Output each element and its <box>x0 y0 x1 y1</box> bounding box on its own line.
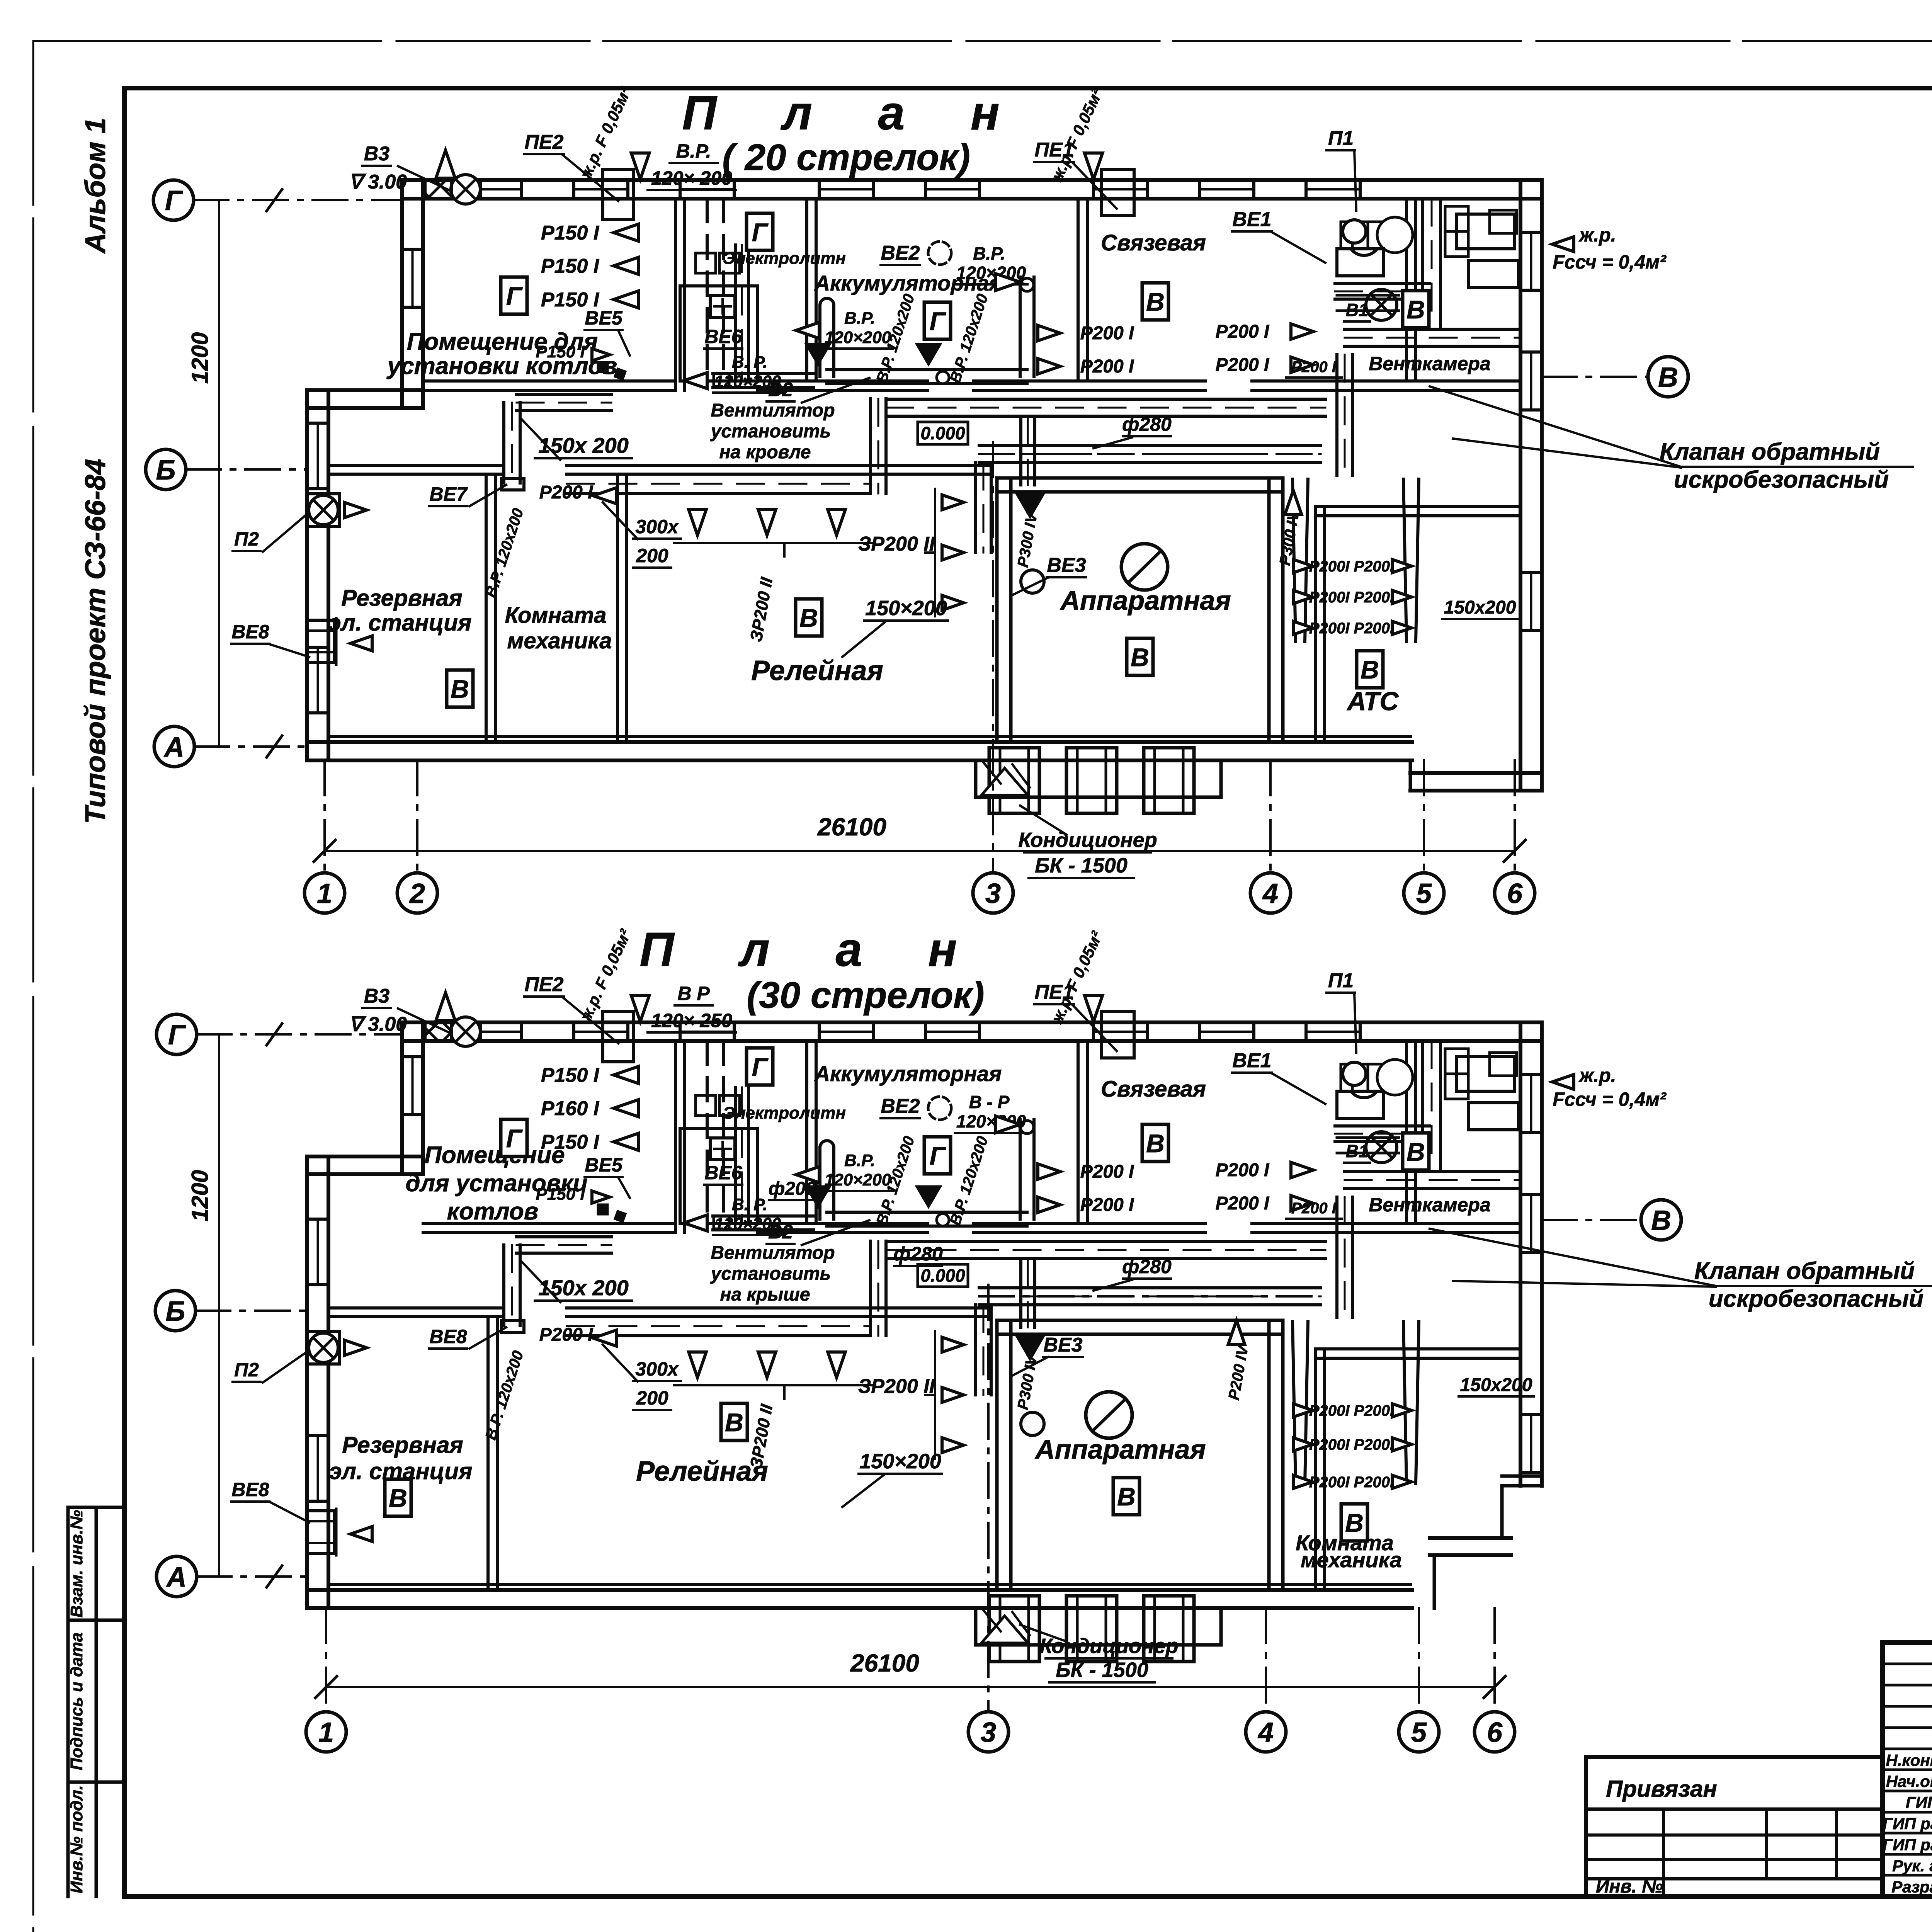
boxed В Резервная <box>385 1479 411 1516</box>
svg-text:0.000: 0.000 <box>920 1265 965 1286</box>
inner acid room <box>680 1128 757 1223</box>
Венткамера clutter <box>1341 222 1387 249</box>
Венткамера equipment 2 <box>1468 1103 1519 1130</box>
triangle ж.р. right <box>1552 237 1574 252</box>
svg-text:Нач.отд.: Нач.отд. <box>1886 1772 1932 1791</box>
triangle ж.р. right <box>1085 995 1103 1022</box>
svg-text:Р200I Р200I: Р200I Р200I <box>1309 1402 1395 1419</box>
кондиционер unit <box>1144 748 1194 813</box>
tapered duct x=3652 <box>1403 479 1419 641</box>
svg-text:В. Р.: В. Р. <box>732 353 767 372</box>
level mark 0.000 box <box>918 422 968 444</box>
svg-text:Релейная: Релейная <box>751 655 883 686</box>
svg-text:Связевая: Связевая <box>1101 230 1206 255</box>
svg-text:В. Р.: В. Р. <box>732 1195 767 1214</box>
svg-text:В1: В1 <box>1346 300 1369 320</box>
svg-text:Г: Г <box>506 1124 523 1153</box>
window top wall <box>818 1022 821 1041</box>
svg-text:ф280: ф280 <box>1122 1256 1172 1277</box>
right wall step <box>1502 1475 1542 1478</box>
Венткамера fan 2 <box>1366 1132 1397 1163</box>
vertical dim line 1200 <box>218 1034 220 1577</box>
svg-text:котлов: котлов <box>447 1198 539 1225</box>
svg-text:5: 5 <box>1416 878 1432 909</box>
svg-text:Н.контр.: Н.контр. <box>1886 1751 1932 1769</box>
corridor wall left segment <box>328 464 502 467</box>
Венткамера horizontal duct <box>1345 1170 1519 1173</box>
duct ф280 centerline <box>979 453 1321 455</box>
ВЕ5 damper squares <box>597 361 609 373</box>
partition Помещение|Электролитная <box>674 199 677 390</box>
window left wall <box>307 422 328 425</box>
svg-text:А: А <box>163 732 184 763</box>
svg-text:П1: П1 <box>1328 127 1354 150</box>
svg-text:механика: механика <box>507 628 612 653</box>
battery box <box>710 1138 735 1160</box>
battery sym 1 <box>696 253 716 273</box>
svg-text:ВЕ3: ВЕ3 <box>1043 1334 1082 1356</box>
svg-text:2: 2 <box>409 878 425 909</box>
ВЕ3 round symbol <box>1021 570 1044 593</box>
left column boxes <box>66 1507 70 1896</box>
svg-text:6: 6 <box>1507 878 1523 909</box>
svg-text:В.Р.: В.Р. <box>973 243 1005 264</box>
svg-text:ВЕ1: ВЕ1 <box>1232 208 1271 231</box>
bracket ЗР200 stack <box>925 489 935 616</box>
svg-text:Комната: Комната <box>505 603 607 628</box>
axis А line <box>194 745 307 748</box>
Аппаратная wall right <box>1267 1320 1271 1590</box>
axis А line <box>197 1575 307 1578</box>
triangle Р300 drop <box>1016 494 1044 518</box>
outer wall left step <box>307 388 423 392</box>
right section floor <box>1430 1536 1511 1540</box>
partition Помещение|Электролитная <box>674 1041 677 1233</box>
dim tick right <box>1484 1676 1505 1698</box>
svg-text:В: В <box>1117 1482 1136 1511</box>
svg-text:Г: Г <box>165 185 183 216</box>
svg-text:ВЕ7: ВЕ7 <box>429 483 468 505</box>
ВЕ5 damper squares <box>597 1204 609 1215</box>
axis circle А <box>156 1556 197 1597</box>
window top wall <box>572 1022 575 1041</box>
svg-text:ф280: ф280 <box>893 1243 943 1265</box>
axis circle А <box>154 726 194 767</box>
window left wall lower <box>307 646 328 649</box>
svg-text:БК - 1500: БК - 1500 <box>1056 1658 1148 1682</box>
кондиционер unit <box>989 748 1039 813</box>
svg-text:150х200: 150х200 <box>1460 1375 1532 1395</box>
axis Б line <box>196 1310 307 1312</box>
svg-text:26100: 26100 <box>817 813 886 841</box>
axis Б line <box>186 468 307 471</box>
svg-text:Р150 I: Р150 I <box>541 1064 600 1087</box>
dim tick left <box>314 840 335 862</box>
svg-text:Р200 I: Р200 I <box>1080 356 1134 377</box>
ВЕ8 triangle <box>350 636 372 651</box>
svg-text:ВЕ5: ВЕ5 <box>585 307 622 329</box>
svg-text:ВЕ8: ВЕ8 <box>429 1326 467 1347</box>
svg-text:искробезопасный: искробезопасный <box>1674 466 1889 493</box>
boxed В Аппаратная <box>1113 1478 1139 1515</box>
triangle row under duct <box>689 1352 706 1378</box>
axis tick А <box>267 1566 282 1587</box>
inner acid room <box>680 286 757 381</box>
Венткамера drop duct <box>1335 1197 1338 1318</box>
triangle ж.р. left <box>631 153 650 179</box>
duct ф280 centerline <box>979 1295 1321 1298</box>
triangle ЗР200 stack <box>942 1438 964 1453</box>
duct 150x200 upper horizontal <box>517 393 611 396</box>
window top wall <box>924 1022 927 1041</box>
Венткамера equipment 2 <box>1468 260 1519 287</box>
window top wall <box>924 180 927 199</box>
triangle P150 <box>614 1100 638 1117</box>
boxed В Связевая <box>1142 283 1168 320</box>
column axis 2 <box>416 760 418 873</box>
triangle row under duct <box>828 1352 845 1378</box>
upper rooms bottom wall C <box>974 379 1206 383</box>
axis circle Б <box>155 1291 196 1331</box>
svg-text:ПЕ2: ПЕ2 <box>524 973 563 996</box>
wall connector bottom-right <box>1409 760 1412 791</box>
leader кондиционер <box>1020 806 1066 835</box>
ПЕ1 penetration <box>1101 169 1134 216</box>
boxed В right <box>1403 1133 1429 1170</box>
outer wall top <box>402 178 1542 182</box>
triangle Р200 right <box>1285 490 1302 514</box>
svg-text:ЗР200 II: ЗР200 II <box>858 533 935 555</box>
duct ВЕ6 horizontal <box>713 372 813 375</box>
triangle В3 <box>436 993 455 1020</box>
svg-text:ЗР200 II: ЗР200 II <box>858 1375 935 1398</box>
svg-text:В2: В2 <box>768 379 793 400</box>
Венткамера fan 1 <box>1348 223 1380 255</box>
ВЕ8 triangle <box>350 1527 372 1542</box>
boxed Г Электролитная <box>747 1048 773 1085</box>
В3 fan in wall <box>451 175 480 204</box>
battery sym 2 <box>719 253 740 273</box>
svg-text:3: 3 <box>981 1717 996 1748</box>
svg-text:ВЕ1: ВЕ1 <box>1232 1049 1271 1072</box>
triangle P150 <box>614 224 638 241</box>
svg-text:ВЕ6: ВЕ6 <box>704 1162 742 1184</box>
svg-text:В1: В1 <box>1346 1141 1369 1161</box>
кондиционер unit <box>989 1596 1039 1662</box>
axis circle В <box>1648 357 1688 397</box>
svg-text:150х 200: 150х 200 <box>538 1276 629 1300</box>
svg-text:200: 200 <box>636 1387 668 1409</box>
кондиционер unit <box>1066 748 1117 813</box>
svg-text:Рук. гр.: Рук. гр. <box>1892 1857 1932 1875</box>
triangle P150 <box>614 257 638 274</box>
svg-text:Р200 I: Р200 I <box>1216 1193 1270 1214</box>
svg-text:В: В <box>799 604 818 632</box>
axis circle Г <box>156 1014 197 1054</box>
svg-text:Г: Г <box>930 307 946 335</box>
Венткамера drop duct <box>1335 355 1338 475</box>
outer wall right <box>1519 1022 1522 1486</box>
duct ф280 round <box>979 444 1321 447</box>
window right wall 3 <box>1520 571 1542 574</box>
svg-text:В: В <box>1658 362 1678 393</box>
svg-text:Инв.№ подл.: Инв.№ подл. <box>67 1785 86 1893</box>
svg-text:В: В <box>1345 1509 1364 1537</box>
triangle ВЕ6 <box>684 1215 707 1231</box>
duct 150x200 upper horizontal <box>517 1235 611 1238</box>
triangle Р200 right <box>1228 1320 1245 1344</box>
bracket ЗР200 stack <box>925 1331 935 1459</box>
leader клапан 2 <box>1453 1281 1716 1287</box>
window right wall 2 <box>1520 1193 1542 1196</box>
window upper-left wall <box>402 248 423 251</box>
Аппаратная wall left <box>995 1320 999 1590</box>
axis circle Г <box>153 180 194 220</box>
column axis 3 <box>992 442 994 873</box>
window right wall <box>1520 1073 1542 1076</box>
column axis 6 <box>1493 1608 1496 1712</box>
svg-text:В: В <box>1406 295 1425 324</box>
duct upper run to Венткамера <box>886 398 1325 401</box>
boxed В АТС <box>1357 651 1383 688</box>
outer wall top <box>402 1020 1542 1024</box>
svg-text:В.Р.: В.Р. <box>844 1151 875 1170</box>
duct ВЕ6 horizontal <box>713 1214 813 1218</box>
right room wall left <box>1314 507 1317 742</box>
svg-text:6: 6 <box>1487 1717 1503 1748</box>
svg-text:ж.р.: ж.р. <box>1578 1065 1616 1086</box>
ПЕ2 penetration <box>603 1012 634 1062</box>
window top wall <box>679 1022 682 1041</box>
svg-text:150х 200: 150х 200 <box>538 433 629 457</box>
svg-text:Р200I Р200I: Р200I Р200I <box>1309 589 1395 606</box>
triangle row under duct <box>758 510 776 535</box>
window top wall <box>818 180 821 199</box>
outer wall right <box>1519 180 1522 791</box>
duct 150x200 vertical to ВЕ7 <box>502 1245 505 1325</box>
triangle ж.р. right <box>1085 153 1103 179</box>
svg-text:ГИП разд.: ГИП разд. <box>1883 1815 1932 1833</box>
svg-text:300х: 300х <box>635 516 679 537</box>
triangle row under duct <box>828 510 845 535</box>
svg-text:В: В <box>725 1408 743 1437</box>
кондиционер hatch <box>983 1610 1030 1635</box>
svg-text:Венткамера: Венткамера <box>1369 353 1490 374</box>
кондиционер unit <box>1066 1596 1117 1662</box>
svg-text:Релейная: Релейная <box>636 1456 768 1487</box>
svg-text:П л а н: П л а н <box>682 87 1026 140</box>
right step connector <box>1500 1486 1504 1538</box>
svg-text:150×200: 150×200 <box>859 1450 941 1473</box>
triangle ЗР200 stack <box>942 495 964 510</box>
triangle row under duct <box>758 1352 776 1378</box>
svg-text:В3: В3 <box>364 985 390 1007</box>
duct ф280 round <box>979 1286 1321 1289</box>
boxed Г left room <box>501 1119 527 1156</box>
svg-text:120× 250: 120× 250 <box>651 1010 732 1031</box>
triangle P150 <box>614 1066 638 1083</box>
svg-text:Р160 I: Р160 I <box>541 1097 600 1120</box>
svg-text:0.000: 0.000 <box>920 423 965 443</box>
svg-text:Альбом 1: Альбом 1 <box>79 118 111 254</box>
svg-text:Кондиционер: Кондиционер <box>1018 828 1157 852</box>
leader кондиционер <box>1020 1625 1066 1641</box>
U-shaped round duct Аккумуляторная <box>818 305 821 377</box>
svg-text:Резервная: Резервная <box>342 1432 463 1458</box>
П2 fan <box>309 1333 338 1362</box>
duct 300x200 thick <box>567 473 871 476</box>
boxed В Резервная <box>447 670 473 707</box>
svg-text:26100: 26100 <box>850 1649 919 1677</box>
triangle ВР right <box>995 1116 1020 1133</box>
column axis 4 <box>1269 760 1272 873</box>
svg-text:В: В <box>1651 1205 1671 1236</box>
svg-text:Р200 I: Р200 I <box>1216 321 1270 342</box>
svg-text:В: В <box>451 675 469 703</box>
svg-text:120×200: 120×200 <box>825 1170 891 1189</box>
svg-text:Р150 I: Р150 I <box>541 1131 600 1153</box>
window top wall <box>466 180 469 199</box>
riser В.Р. dashed <box>706 1041 709 1223</box>
Аппаратная wall left <box>995 478 999 742</box>
svg-text:Б: Б <box>156 455 176 486</box>
duct elbow up <box>869 399 872 493</box>
window top wall <box>1092 1022 1095 1041</box>
П2 flow triangle <box>344 1340 367 1355</box>
svg-text:150×200: 150×200 <box>865 597 947 620</box>
boxed В Связевая <box>1142 1124 1168 1162</box>
svg-text:Р150 I: Р150 I <box>536 342 585 361</box>
svg-text:ГИП: ГИП <box>1906 1793 1932 1811</box>
duct 150x200 vertical to ВЕ7 <box>502 403 505 483</box>
svg-text:Связевая: Связевая <box>1101 1077 1206 1102</box>
svg-text:Р150 I: Р150 I <box>541 222 600 244</box>
window right wall 2 <box>1520 350 1542 354</box>
level mark 0.000 box <box>918 1264 968 1287</box>
triangle ж.р. left <box>631 995 650 1022</box>
upper rooms bottom wall B <box>757 1222 927 1225</box>
svg-text:Р200I Р200I: Р200I Р200I <box>1309 620 1395 637</box>
outer wall bottom <box>307 740 1412 744</box>
triangle ЗР200 stack <box>942 1388 964 1403</box>
svg-text:Г: Г <box>752 218 769 247</box>
svg-text:Г: Г <box>930 1141 946 1170</box>
column axis 3 <box>987 1285 990 1712</box>
column axis 5 <box>1423 760 1425 873</box>
axis tick Г <box>267 189 282 211</box>
partition Связевая|Венткамера <box>1405 1041 1408 1223</box>
svg-text:200: 200 <box>636 545 668 566</box>
кондиционер bay outline <box>976 760 1221 797</box>
lower rooms top wall <box>567 1306 989 1310</box>
svg-text:В3: В3 <box>364 143 390 165</box>
svg-text:Р200 I: Р200 I <box>539 1325 594 1345</box>
battery sym 2 <box>719 1095 740 1116</box>
svg-text:Разраб.: Разраб. <box>1891 1878 1932 1896</box>
outer wall upper-left <box>400 180 404 408</box>
svg-text:В: В <box>1146 287 1165 316</box>
window top wall <box>1198 1022 1201 1041</box>
outer wall left <box>305 390 309 760</box>
svg-text:ВЕ2: ВЕ2 <box>881 242 920 264</box>
axis tick А <box>267 736 282 757</box>
svg-text:Г: Г <box>506 282 523 310</box>
window top wall <box>1304 180 1308 199</box>
svg-text:Венткамера: Венткамера <box>1369 1194 1490 1216</box>
axis tick Г <box>267 1024 282 1045</box>
right room wall left <box>1314 1349 1317 1590</box>
svg-text:Клапан обратный: Клапан обратный <box>1660 439 1880 465</box>
duct drop to ВЕ3 <box>974 1305 977 1395</box>
svg-text:Р200 I: Р200 I <box>1080 323 1134 344</box>
axis circle В <box>1641 1200 1681 1240</box>
svg-text:ВЕ2: ВЕ2 <box>881 1095 920 1117</box>
boxed В Релейная <box>721 1403 747 1440</box>
partition Резервная|Релейная <box>486 1316 490 1590</box>
partition Комната механика|Релейная <box>616 474 619 742</box>
duct elbow up <box>869 1241 872 1336</box>
ПЕ1 penetration <box>1101 1012 1134 1058</box>
axis В line <box>1542 376 1648 378</box>
svg-text:ВЕ3: ВЕ3 <box>1047 554 1086 577</box>
upper rooms bottom wall D <box>1252 379 1520 383</box>
Аппаратная wall right <box>1267 478 1271 742</box>
partition Резервная|Комната механика <box>485 474 488 742</box>
duct riser 2 <box>734 245 737 381</box>
svg-text:Р200I Р200I: Р200I Р200I <box>1309 1474 1395 1491</box>
Венткамера riser <box>1421 1041 1424 1168</box>
кондиционер hatch <box>983 762 1030 787</box>
П2 wall box <box>307 1332 340 1364</box>
window upper-left wall <box>402 1055 423 1058</box>
В3 hatched vent block <box>425 180 451 199</box>
column axis 6 <box>1514 760 1516 873</box>
tapered duct x=3652 <box>1403 1321 1419 1484</box>
svg-text:120×200: 120×200 <box>825 328 891 347</box>
svg-text:1: 1 <box>318 1717 334 1748</box>
duct 300x200 thick <box>567 1315 871 1318</box>
svg-text:П1: П1 <box>1328 969 1354 992</box>
svg-text:ВЕ6: ВЕ6 <box>704 326 742 347</box>
battery sym 1 <box>696 1095 716 1116</box>
window right wall <box>1520 231 1542 234</box>
svg-text:В Р: В Р <box>677 983 710 1004</box>
floor line rooms bottom <box>328 1583 1410 1586</box>
svg-text:Взам. инв.№: Взам. инв.№ <box>67 1510 86 1617</box>
svg-text:механика: механика <box>1301 1548 1402 1572</box>
window top wall <box>572 180 575 199</box>
svg-text:ВЕ8: ВЕ8 <box>231 1479 269 1500</box>
В3 hatched vent block <box>425 1022 451 1041</box>
svg-text:Аккумуляторная: Аккумуляторная <box>814 271 1002 295</box>
svg-text:4: 4 <box>1262 878 1278 909</box>
svg-text:Б: Б <box>166 1296 185 1327</box>
кондиционер fan triangle <box>981 1616 1028 1643</box>
svg-text:Аккумуляторная: Аккумуляторная <box>814 1061 1002 1086</box>
svg-text:Вентилятор: Вентилятор <box>711 1243 835 1263</box>
triangle ВР right <box>995 274 1020 291</box>
svg-text:Электролитн: Электролитн <box>723 249 846 268</box>
svg-text:Р200 I: Р200 I <box>1216 355 1270 375</box>
Венткамера equipment 1 <box>1457 214 1515 249</box>
svg-text:эл. станция: эл. станция <box>328 610 472 636</box>
svg-text:А: А <box>166 1562 187 1593</box>
window left wall lower <box>307 1434 328 1437</box>
svg-text:ф280: ф280 <box>1122 413 1172 435</box>
partition Аккумуляторная|Связевая <box>1077 199 1080 381</box>
svg-text:Р200I Р200I: Р200I Р200I <box>1309 558 1395 575</box>
axis Г line <box>197 1033 402 1036</box>
